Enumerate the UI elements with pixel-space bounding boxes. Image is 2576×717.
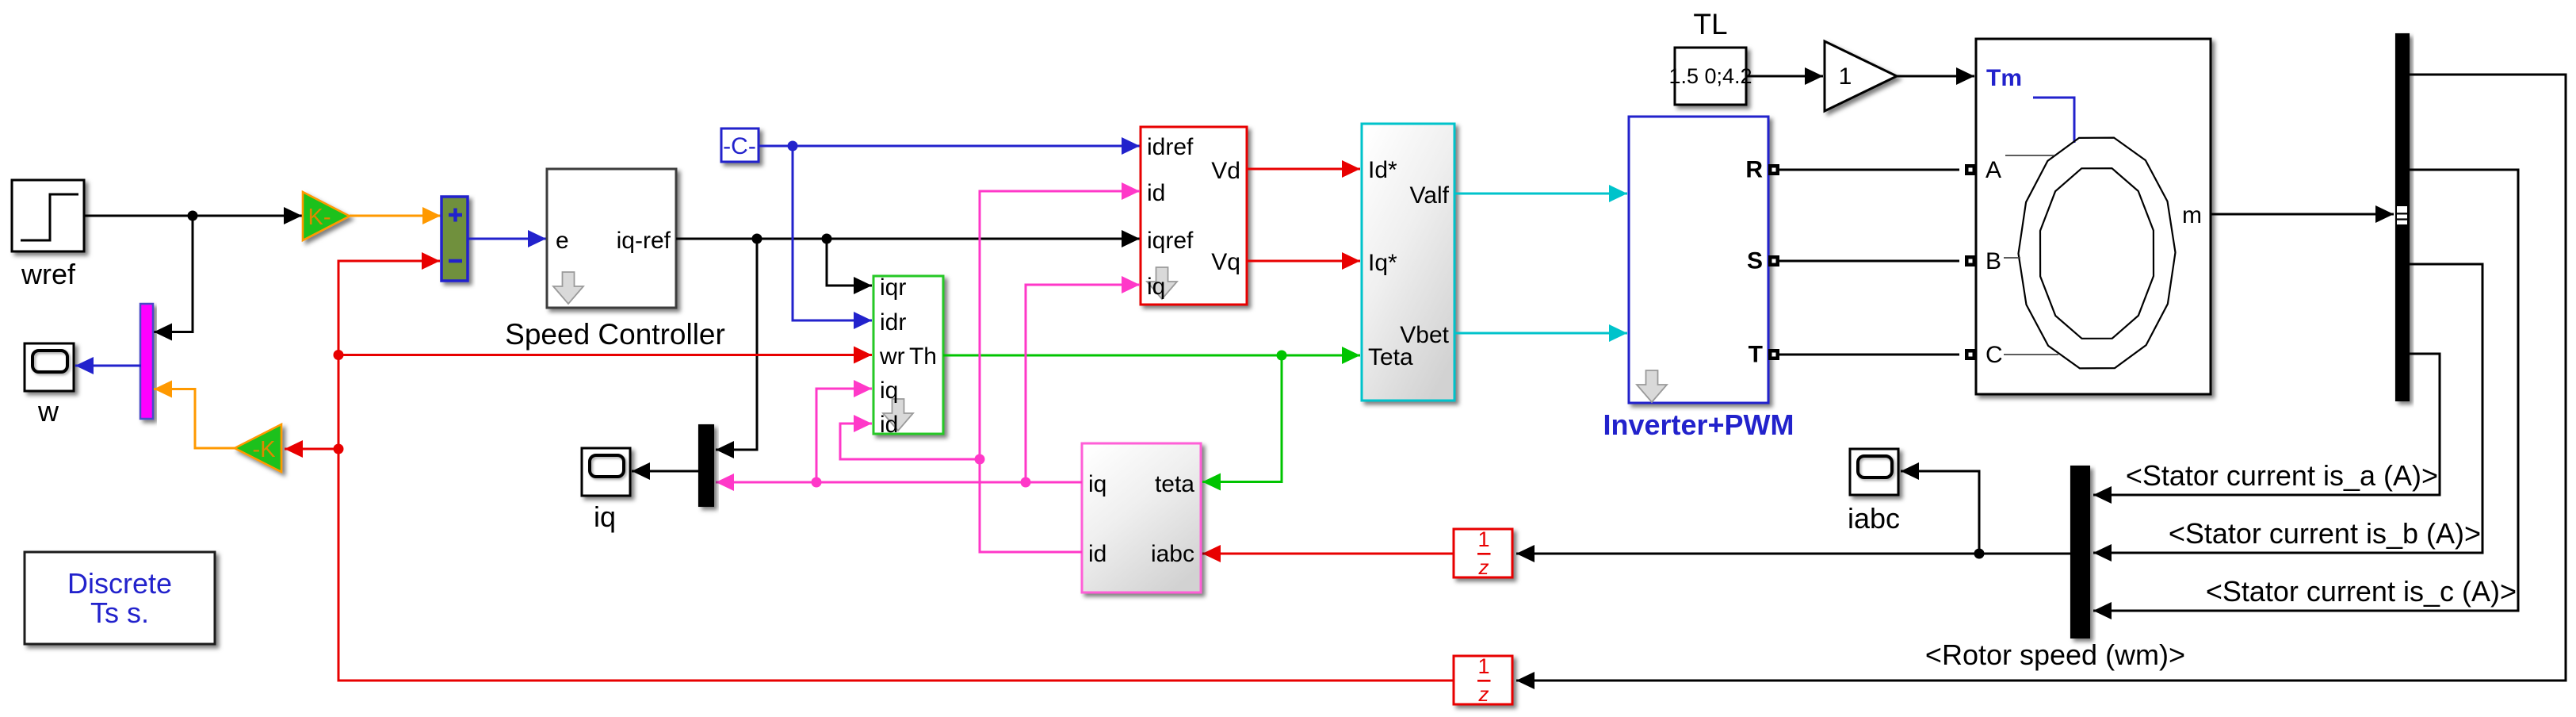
svg-text:z: z <box>1478 682 1489 706</box>
port square A <box>1965 164 1976 175</box>
wire S to B <box>1779 260 1959 263</box>
arrowhead into mux w <box>154 324 172 341</box>
svg-text:Valf: Valf <box>1410 182 1450 209</box>
arrowhead into gain K- <box>284 207 302 224</box>
arrowhead into scope w <box>75 357 94 374</box>
wire iq net <box>716 481 1082 484</box>
wire wref branch down to mux <box>154 216 193 332</box>
svg-text:Th: Th <box>909 343 937 370</box>
arrowhead into scope iabc <box>1901 462 1919 480</box>
subsystem Speed Controller <box>547 169 676 308</box>
svg-text:A: A <box>1986 157 2001 183</box>
svg-text:Vd: Vd <box>1211 158 1240 184</box>
svg-text:iq: iq <box>1088 471 1106 497</box>
svg-text:<Stator current is_b (A)>: <Stator current is_b (A)> <box>2169 517 2481 550</box>
unit delay 1/z lower <box>1454 654 1512 706</box>
svg-text:iq: iq <box>1147 274 1165 300</box>
svg-text:iq: iq <box>880 378 898 404</box>
label rotor speed wm <box>1925 638 2185 671</box>
label iabc <box>1848 502 1900 535</box>
arrowhead into sum plus <box>422 207 441 224</box>
wire teta branch to abc2dq <box>1202 355 1282 482</box>
wire gain K- to sum <box>350 215 441 217</box>
arrowhead into delay 1/z lower <box>1516 672 1535 689</box>
arrowhead into iqr <box>854 277 872 294</box>
subsystem abc2dq <box>1082 443 1201 592</box>
svg-text:B: B <box>1986 248 2001 274</box>
junction iq to observer <box>812 477 822 488</box>
subsystem dq2alphabeta <box>1362 124 1454 401</box>
svg-text:idref: idref <box>1147 134 1194 160</box>
arrowhead into wr <box>854 347 872 364</box>
wire wref to gain K- <box>85 215 303 217</box>
wire delay upper to iabc input <box>1202 553 1454 555</box>
asynchronous machine block <box>1976 39 2211 394</box>
wire Vbet to inverter <box>1454 332 1627 335</box>
svg-text:id: id <box>1088 541 1106 567</box>
wire -C- branch to idr <box>793 146 872 320</box>
svg-text:S: S <box>1747 248 1763 274</box>
svg-text:iq-ref: iq-ref <box>617 228 671 254</box>
wire id branch to observer <box>840 424 980 459</box>
wire iq-ref branch to iq mux <box>716 239 757 450</box>
sum block <box>441 197 468 281</box>
junction wref branch <box>188 211 198 221</box>
wire Vd to Id* <box>1247 168 1360 171</box>
svg-text:C: C <box>1986 342 2003 368</box>
svg-text:Tm: Tm <box>1986 65 2022 91</box>
wire -C- to idref <box>759 145 1140 148</box>
wire stator current is_a <box>2093 354 2440 495</box>
junction iq to current controller <box>1021 477 1031 488</box>
arrowhead Valf into inverter <box>1609 185 1627 202</box>
label stator current is_b <box>2169 517 2481 550</box>
svg-text:Iq*: Iq* <box>1368 250 1397 276</box>
svg-text:Vq: Vq <box>1211 249 1240 275</box>
arrowhead is_b into mux iabc <box>2093 544 2112 562</box>
mux w magenta bar <box>140 304 153 419</box>
subsystem flux observer <box>873 274 943 438</box>
svg-text:e: e <box>556 228 569 254</box>
junction teta branch <box>1277 351 1287 361</box>
label stator current is_a <box>2126 459 2438 492</box>
wire mux w to scope w <box>75 365 141 367</box>
label iq <box>594 500 616 533</box>
arrowhead into bus selector <box>2375 205 2394 223</box>
junction wm to gain -K <box>334 444 344 454</box>
port square C <box>1965 349 1976 360</box>
arrowhead into gain 1 <box>1805 67 1823 85</box>
gain K- <box>303 192 350 240</box>
wire gain -K to mux w <box>154 389 235 449</box>
junction iq-ref branch 2 <box>822 234 832 244</box>
svg-text:K-: K- <box>308 205 331 230</box>
wire wm branch to wr <box>338 354 872 356</box>
constant TL <box>1668 48 1752 105</box>
arrowhead into Id* <box>1342 160 1360 178</box>
svg-text:iqr: iqr <box>880 274 906 301</box>
svg-text:1: 1 <box>1477 527 1489 551</box>
arrowhead into controller id <box>1122 182 1140 200</box>
svg-text:iabc: iabc <box>1848 502 1900 535</box>
arrowhead iq into mux <box>716 474 734 491</box>
arrowhead into gain -K <box>285 440 303 458</box>
label Inverter+PWM <box>1603 408 1794 441</box>
arrowhead into sum minus <box>422 252 440 270</box>
svg-text:-K: -K <box>253 437 277 462</box>
gain -K <box>235 424 281 472</box>
wire iq-ref branch to iqr <box>827 239 872 286</box>
label stator current is_c <box>2206 575 2517 608</box>
svg-text:id: id <box>880 412 898 438</box>
svg-text:<Stator current is_c (A)>: <Stator current is_c (A)> <box>2206 575 2517 608</box>
svg-text:<Stator current is_a (A)>: <Stator current is_a (A)> <box>2126 459 2438 492</box>
wire T to C <box>1779 354 1959 356</box>
svg-text:Ts s.: Ts s. <box>90 596 149 629</box>
scope iabc block <box>1850 449 1898 495</box>
wire iq branch to observer <box>816 389 872 482</box>
wire Th to Teta <box>943 355 1360 357</box>
svg-text:Discrete: Discrete <box>67 567 172 600</box>
junction iq-ref branch 1 <box>752 234 762 244</box>
port square B <box>1965 255 1976 266</box>
wire sum to speed controller e <box>467 238 546 240</box>
subsystem current controller <box>1141 127 1247 305</box>
constant -C- <box>721 128 759 162</box>
wire wm branch to gain -K <box>285 448 338 451</box>
arrowhead is_a into mux iabc <box>2093 486 2112 504</box>
arrowhead into Teta <box>1342 347 1360 364</box>
wire gain 1 to Tm <box>1897 75 1974 78</box>
svg-text:wr: wr <box>879 343 905 370</box>
svg-text:Inverter+PWM: Inverter+PWM <box>1603 408 1794 441</box>
mux iabc bar <box>2070 466 2090 638</box>
scope iq block <box>582 448 630 496</box>
arrowhead into iqref <box>1122 230 1140 247</box>
wire speed feedback wm <box>338 261 1454 681</box>
wire branch to scope iabc <box>1901 471 1979 554</box>
port square T <box>1768 349 1779 360</box>
wire Vq to Iq* <box>1247 260 1360 263</box>
svg-text:R: R <box>1745 157 1763 183</box>
arrowhead into pink iabc <box>1202 545 1221 562</box>
arrowhead Vbet into inverter <box>1609 324 1627 342</box>
svg-text:z: z <box>1478 555 1489 579</box>
wire m to bus selector <box>2211 213 2394 216</box>
port square S <box>1768 255 1779 266</box>
mux iq bar <box>698 424 714 507</box>
wire Valf to inverter <box>1454 193 1627 195</box>
svg-text:-C-: -C- <box>723 133 756 159</box>
junction id to observer <box>975 454 985 465</box>
svg-text:Speed Controller: Speed Controller <box>505 318 725 351</box>
arrowhead into idref <box>1122 137 1140 155</box>
svg-text:wref: wref <box>21 258 76 290</box>
arrowhead into Tm <box>1956 67 1974 85</box>
svg-text:idr: idr <box>880 309 906 335</box>
arrowhead into teta <box>1202 474 1221 491</box>
scope w block <box>25 343 74 391</box>
svg-text:1: 1 <box>1839 63 1852 90</box>
arrowhead orange into mux w <box>154 381 172 398</box>
arrowhead into e <box>528 230 546 247</box>
label w <box>37 395 59 428</box>
unit delay 1/z upper <box>1454 527 1512 579</box>
svg-text:1.5 0;4.2: 1.5 0;4.2 <box>1668 64 1752 88</box>
wire R to A <box>1779 169 1959 171</box>
svg-text:id: id <box>1147 180 1165 206</box>
svg-text:iabc: iabc <box>1151 541 1194 567</box>
arrowhead is_c into mux iabc <box>2093 602 2112 619</box>
port square R <box>1768 164 1779 175</box>
junction wm to wr <box>334 350 344 360</box>
subsystem Inverter+PWM <box>1629 117 1768 403</box>
svg-text:Id*: Id* <box>1368 157 1397 183</box>
svg-text:Vbet: Vbet <box>1400 322 1449 348</box>
wire stator current is_b <box>2093 264 2482 553</box>
junction -C- branch <box>788 141 798 151</box>
arrowhead into controller iq <box>1122 276 1140 293</box>
arrowhead into observer id <box>854 415 872 432</box>
svg-text:iq: iq <box>594 500 616 533</box>
label wref <box>21 258 76 290</box>
svg-text:T: T <box>1749 342 1763 368</box>
svg-text:w: w <box>37 395 59 428</box>
wire iq branch to controller <box>1026 285 1140 482</box>
arrowhead into delay 1/z upper <box>1516 545 1535 562</box>
arrowhead into scope iq <box>632 462 650 480</box>
wire mux iabc output to delay <box>1516 553 2070 555</box>
junction iabc scope branch <box>1974 549 1985 559</box>
bus selector bar <box>2395 33 2410 401</box>
gain 1 <box>1825 41 1897 111</box>
svg-text:iqref: iqref <box>1147 228 1194 254</box>
svg-text:TL: TL <box>1693 8 1727 40</box>
label TL <box>1693 8 1727 40</box>
wire mux iq to scope <box>632 470 698 473</box>
svg-text:1: 1 <box>1477 654 1489 678</box>
arrowhead into iq mux top <box>716 441 734 458</box>
arrowhead into observer iq <box>854 380 872 397</box>
label Speed Controller <box>505 318 725 351</box>
step source wref block <box>12 180 84 251</box>
annotation Discrete Ts s <box>25 552 215 644</box>
wire rotor speed wm <box>1516 75 2566 681</box>
svg-text:<Rotor speed (wm)>: <Rotor speed (wm)> <box>1925 638 2185 671</box>
wire iq-ref to dq-current block <box>676 238 1140 240</box>
wire stator current is_c <box>2093 170 2518 611</box>
wire TL to gain 1 <box>1746 75 1823 78</box>
svg-text:teta: teta <box>1155 471 1194 497</box>
arrowhead into idr <box>854 312 872 329</box>
svg-text:m: m <box>2182 202 2202 228</box>
wire id net <box>980 191 1140 552</box>
arrowhead into Iq* <box>1342 252 1360 270</box>
